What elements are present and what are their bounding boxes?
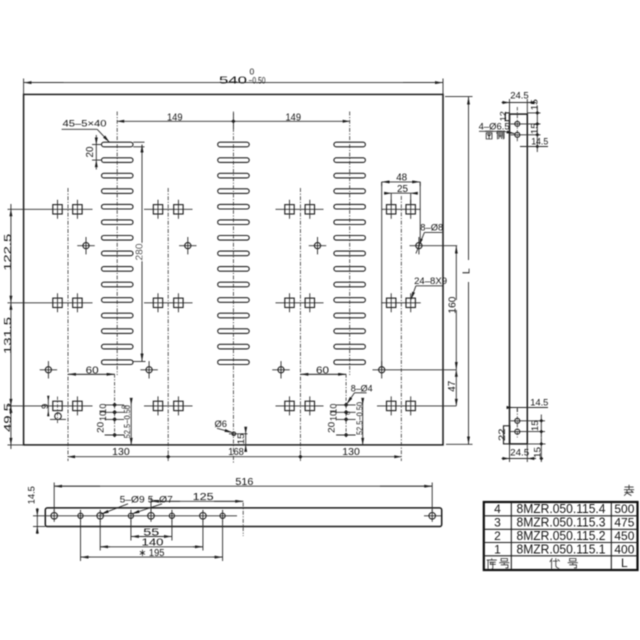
svg-text:160: 160 — [448, 296, 459, 313]
square holes 8x9, row 1 — [53, 200, 416, 219]
square-group centerlines (dash-dot) — [68, 188, 401, 461]
svg-text:20: 20 — [85, 146, 96, 157]
svg-text:5–Ø7: 5–Ø7 — [148, 494, 173, 505]
dim 15 side bottom right — [527, 438, 545, 462]
dim 24.5 side top — [502, 91, 537, 115]
svg-text:49.5: 49.5 — [3, 402, 14, 432]
label 4-dia6.5 both sides — [479, 122, 515, 134]
svg-text:12: 12 — [498, 111, 508, 121]
svg-text:10: 10 — [329, 411, 339, 421]
dia4 hole marks at x=114.6 — [105, 374, 125, 437]
svg-text:47: 47 — [447, 380, 458, 391]
dim 280 slots — [133, 142, 145, 361]
bottom view center mark — [242, 503, 244, 537]
svg-text:149: 149 — [286, 112, 302, 123]
svg-text:24.5: 24.5 — [510, 91, 529, 102]
svg-text:516: 516 — [235, 477, 253, 488]
circle holes dia8 row 1 — [77, 237, 457, 254]
svg-text:22: 22 — [497, 429, 507, 442]
side view top tab — [505, 113, 509, 121]
dim 25 — [384, 184, 418, 205]
svg-text:130: 130 — [342, 447, 360, 458]
svg-text:168: 168 — [228, 447, 244, 458]
svg-text:15: 15 — [236, 433, 246, 444]
dim 12 side top tab — [498, 111, 508, 121]
dim L right — [445, 97, 473, 445]
square hole detail with 9 dim — [40, 396, 66, 424]
svg-text:15: 15 — [530, 123, 540, 134]
table grid — [484, 502, 638, 570]
dim 149 (x2) — [117, 112, 350, 129]
dims 10-10-20 col1 — [96, 404, 108, 433]
svg-text:24.5: 24.5 — [510, 447, 529, 458]
svg-text:15: 15 — [530, 420, 540, 431]
svg-text:∗ 195: ∗ 195 — [139, 548, 165, 559]
dim 24.5 side bottom — [502, 444, 537, 462]
svg-text:125: 125 — [193, 492, 215, 503]
dim 14.5 side top — [520, 137, 548, 148]
svg-text:1: 1 — [494, 542, 501, 556]
side view: strip outline — [510, 114, 528, 444]
svg-text:9: 9 — [40, 404, 51, 409]
svg-text:8MZR.050.115.1: 8MZR.050.115.1 — [517, 542, 606, 556]
svg-text:475: 475 — [614, 516, 634, 530]
side view top holes dia6.5 — [511, 107, 541, 142]
dim 516 — [54, 477, 432, 511]
svg-text:8MZR.050.115.2: 8MZR.050.115.2 — [517, 529, 606, 543]
svg-text:15: 15 — [533, 447, 543, 458]
svg-text:4: 4 — [494, 502, 501, 516]
dim 540 -0.50 top — [24, 67, 443, 95]
bottom view hole centerline — [33, 515, 442, 517]
svg-text:0: 0 — [121, 405, 128, 409]
main view: plate outline — [24, 94, 443, 445]
svg-text:−0.50: −0.50 — [249, 75, 266, 85]
square holes 8x9, row 2 — [53, 293, 416, 312]
svg-text:149: 149 — [167, 112, 183, 123]
svg-text:8MZR.050.115.3: 8MZR.050.115.3 — [517, 516, 606, 530]
svg-text:131.5: 131.5 — [3, 316, 14, 354]
svg-text:8MZR.050.115.4: 8MZR.050.115.4 — [517, 502, 606, 516]
dim 20 slot pitch — [85, 135, 102, 170]
dim 14.5 bottom left — [27, 486, 46, 534]
square row 1 horizontal centerlines — [8, 208, 421, 210]
svg-text:280: 280 — [135, 243, 146, 260]
svg-text:20: 20 — [96, 422, 106, 433]
svg-text:60: 60 — [316, 365, 330, 376]
svg-text:122.5: 122.5 — [3, 233, 14, 271]
label 8-dia8 — [416, 223, 443, 254]
svg-text:Ø6: Ø6 — [215, 419, 228, 430]
dims 10-10-20 col3 — [326, 404, 338, 433]
svg-text:450: 450 — [614, 529, 634, 543]
svg-text:5–Ø9: 5–Ø9 — [120, 494, 145, 505]
dim 14.5 side bottom — [507, 398, 549, 412]
svg-text:2: 2 — [494, 529, 501, 543]
square row 3 horizontal centerlines — [8, 405, 457, 407]
svg-text:15: 15 — [530, 99, 540, 110]
dim 160 — [448, 246, 459, 370]
svg-text:52.5−0.50: 52.5−0.50 — [355, 401, 364, 435]
dim 22 side bottom tab — [497, 429, 507, 442]
dim 60 left — [68, 365, 115, 376]
label 24-8X9 — [411, 276, 447, 300]
svg-text:130: 130 — [112, 447, 130, 458]
square holes 8x9, row 3 — [73, 396, 416, 415]
dim 195 — [81, 521, 223, 561]
svg-text:L: L — [621, 556, 628, 570]
svg-text:25: 25 — [397, 184, 408, 195]
svg-text:14.5: 14.5 — [530, 398, 548, 409]
svg-text:10: 10 — [98, 411, 108, 421]
svg-text:24–8X9: 24–8X9 — [414, 276, 447, 287]
table data rows — [494, 502, 635, 556]
svg-text:20: 20 — [326, 422, 336, 433]
side view bottom holes dia6.5 — [511, 409, 546, 438]
table title biao — [624, 485, 633, 496]
circle holes dia8 row 2 — [40, 361, 457, 378]
svg-text:0: 0 — [345, 411, 352, 415]
dim 55 — [131, 521, 172, 541]
table header row — [487, 556, 628, 570]
side view bottom tab — [504, 426, 510, 444]
svg-text:3: 3 — [494, 516, 501, 530]
slot column centerlines (dash-dot) — [117, 112, 350, 465]
svg-text:500: 500 — [614, 502, 634, 516]
label liangce (both sides CJK) — [485, 131, 504, 139]
dim 140 — [100, 521, 203, 551]
dim 47 — [447, 370, 458, 406]
dim 52.5-0.50 at x=346.1 — [345, 398, 364, 445]
ventilation slot column 1 (15 slots 5x40) — [102, 142, 134, 364]
dim 15 side bottom holes — [530, 415, 543, 438]
ventilation slot column 2 (15 slots 5x40) — [218, 142, 250, 364]
svg-text:45–5×40: 45–5×40 — [63, 119, 107, 130]
svg-text:400: 400 — [614, 542, 634, 556]
svg-text:14.5: 14.5 — [27, 486, 38, 504]
svg-text:48: 48 — [396, 172, 407, 183]
bottom view holes 5-dia9 and 5-dia7 — [51, 510, 436, 522]
dim 60 right — [300, 365, 346, 376]
label 5-dia9 — [101, 494, 145, 514]
dim 125 — [151, 492, 243, 511]
dim 52.5-0.50 at x=114.6 — [121, 398, 133, 445]
label 8-dia4 — [347, 384, 373, 405]
svg-text:540: 540 — [219, 74, 247, 86]
hole dia6 with label and dim 15 — [215, 419, 248, 452]
bottom view: bar outline — [45, 508, 441, 527]
svg-text:0: 0 — [250, 67, 255, 77]
svg-text:L: L — [460, 268, 472, 274]
label 45-5x40 — [62, 119, 110, 143]
svg-text:14.5: 14.5 — [531, 137, 548, 148]
dia4 hole marks at x=346.1 — [336, 374, 356, 437]
label 5-dia7 — [132, 494, 173, 514]
dims 130/168/130 bottom — [68, 447, 401, 459]
dim 15/15 side top — [527, 99, 540, 152]
ventilation slot column 3 (15 slots 5x40) — [334, 142, 366, 364]
left dim lines — [3, 204, 24, 449]
dim 48 — [382, 172, 421, 369]
square row 2 horizontal centerlines — [8, 302, 421, 304]
svg-text:60: 60 — [86, 365, 100, 376]
